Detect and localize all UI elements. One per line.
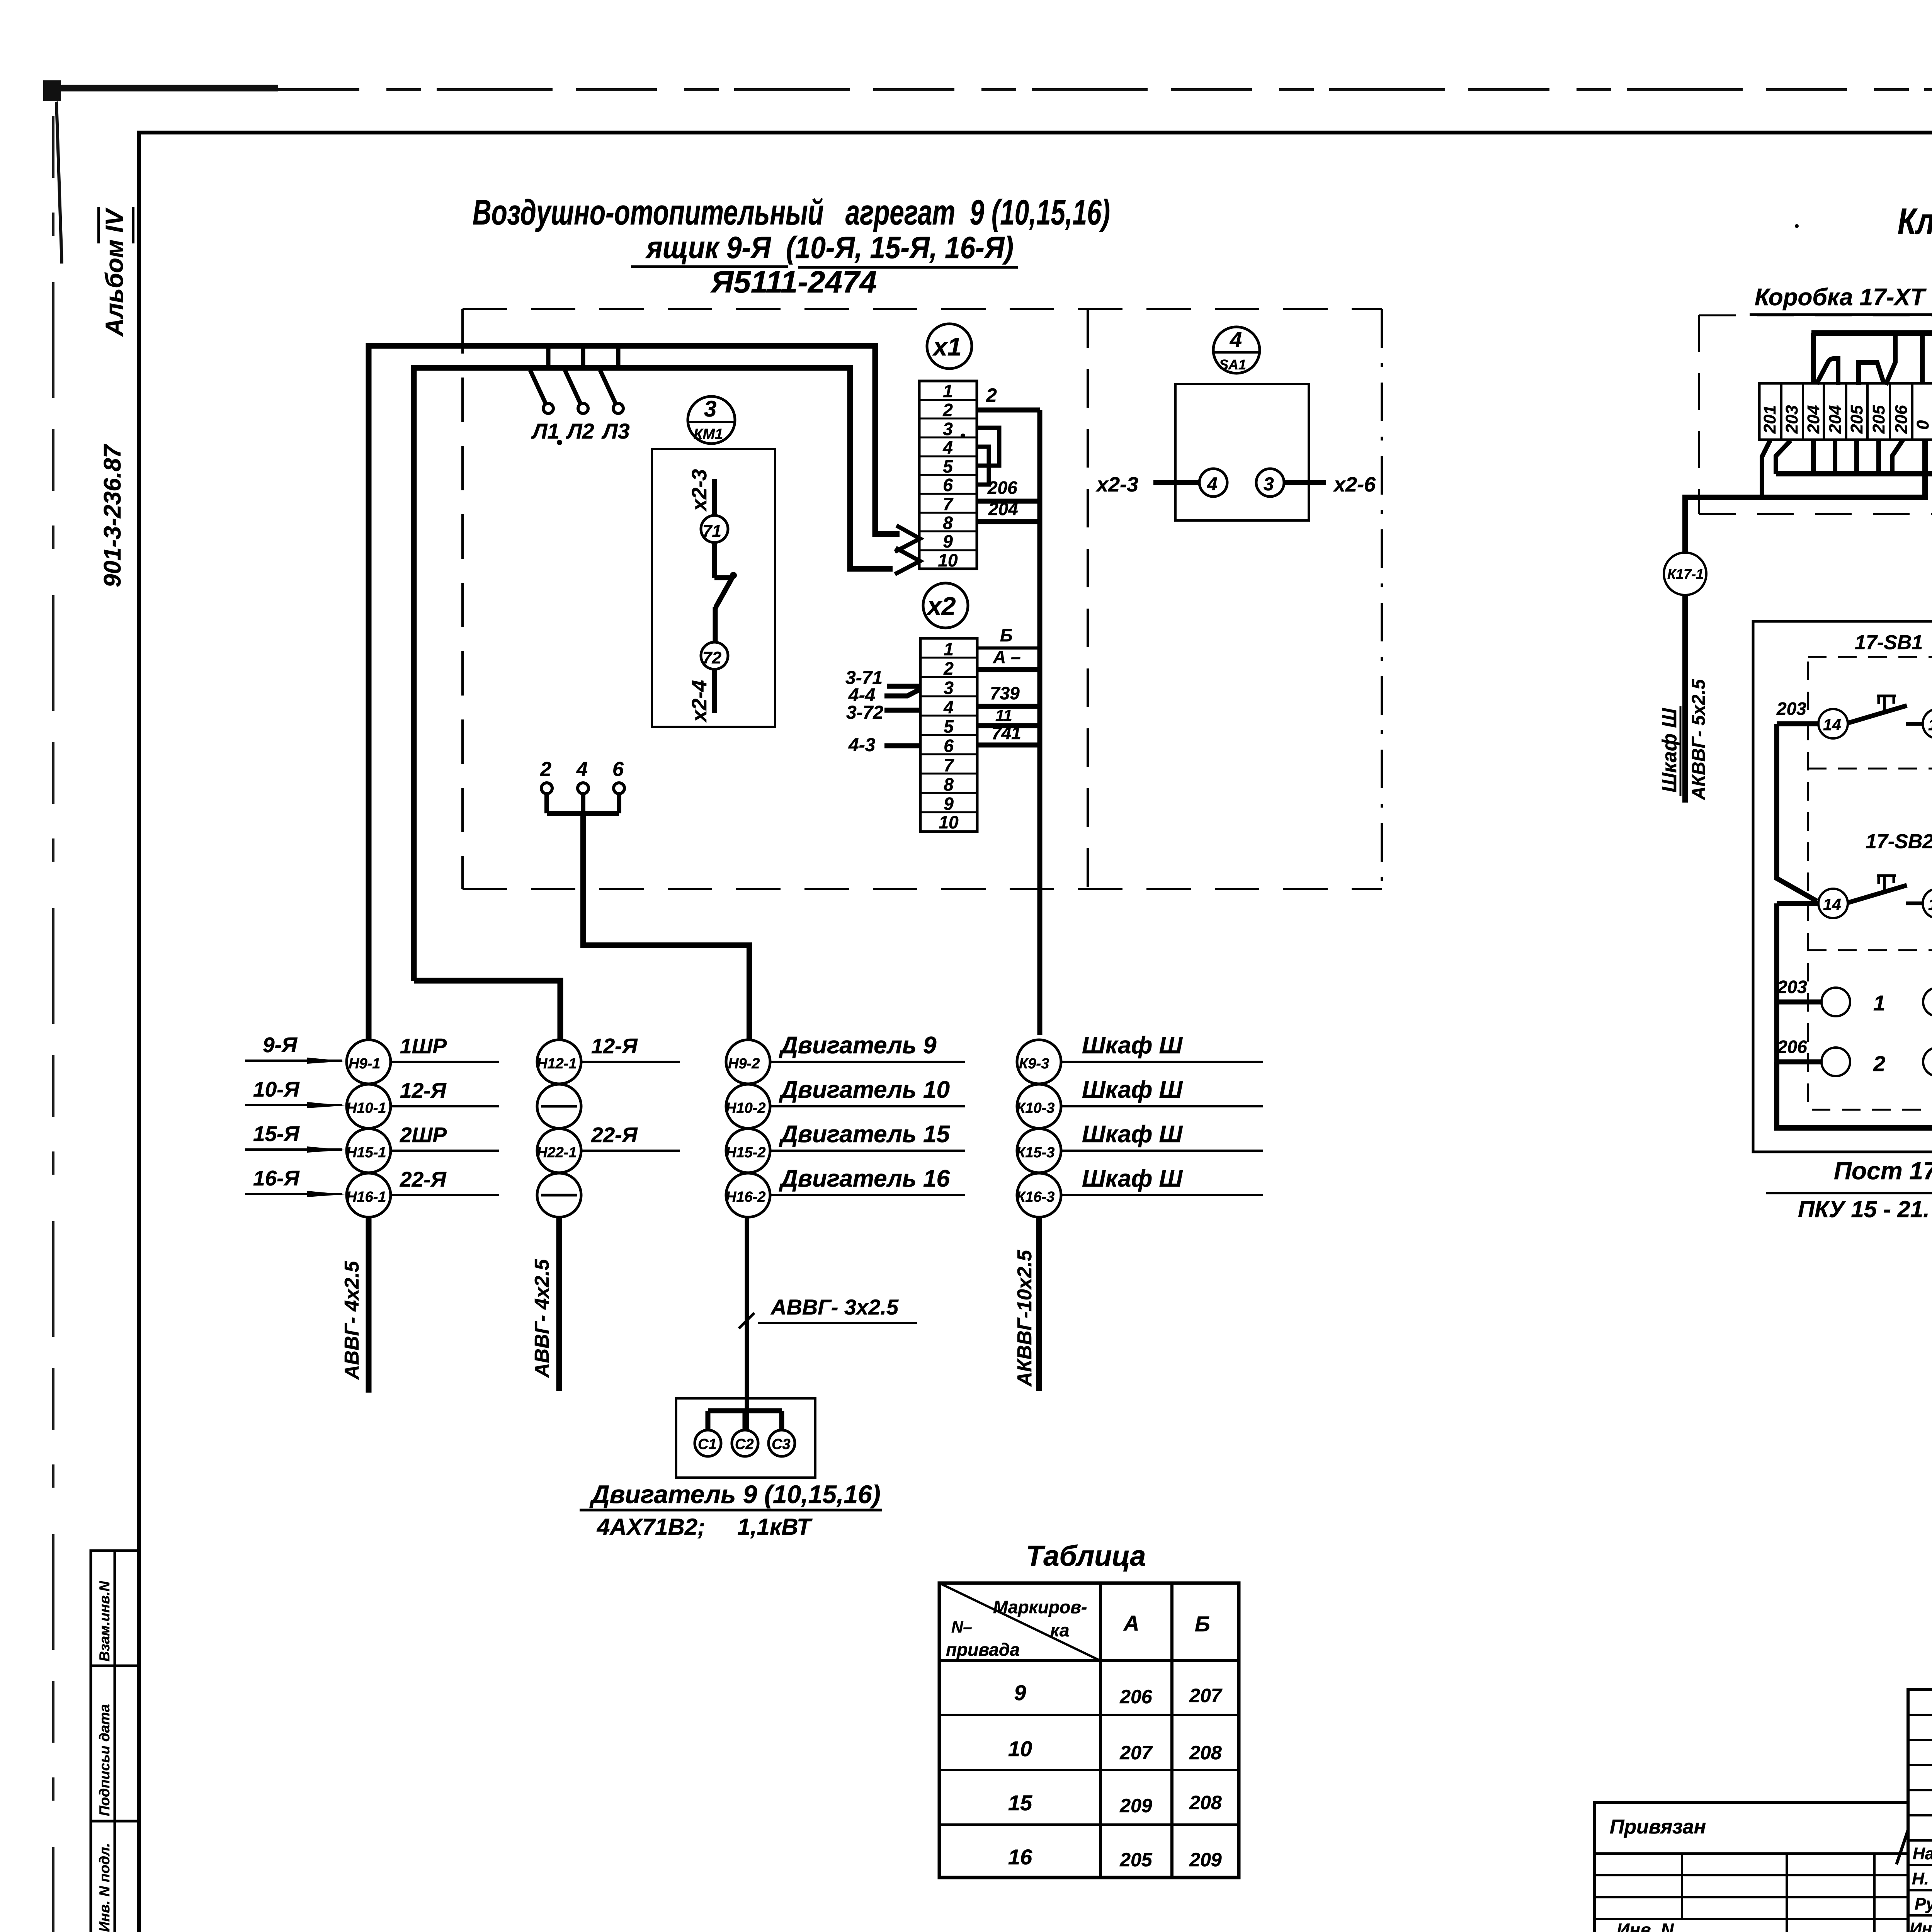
SB1 left wire 203	[1777, 721, 1818, 726]
vertical bus wire to К9-3	[1037, 410, 1043, 1035]
svg-text:Н10-2: Н10-2	[726, 1100, 766, 1116]
checkmark near signature table	[1896, 1830, 1908, 1864]
svg-text:2ШР: 2ШР	[400, 1123, 447, 1147]
svg-text:привада: привада	[946, 1639, 1020, 1660]
svg-text:7: 7	[944, 755, 954, 775]
cable circle Н22-1	[537, 1129, 581, 1173]
wire bus end down into cell3	[1811, 333, 1816, 383]
svg-text:3: 3	[943, 419, 953, 439]
cable circle Н15-2	[726, 1129, 770, 1173]
right label Шкаф Ш row3	[1061, 1121, 1263, 1151]
svg-text:201: 201	[1760, 405, 1779, 434]
terminal strip X2 body	[920, 638, 977, 832]
svg-text:9: 9	[1014, 1680, 1026, 1705]
svg-text:209: 209	[1119, 1795, 1152, 1816]
svg-text:12-Я: 12-Я	[591, 1034, 638, 1058]
svg-text:Пост 17 ПМУ: Пост 17 ПМУ	[1834, 1157, 1932, 1185]
svg-text:Двигатель 9: Двигатель 9	[779, 1032, 937, 1059]
cable circle Н16-1	[346, 1173, 391, 1217]
right label Шкаф Ш row4	[1061, 1165, 1263, 1195]
right label 22-Я	[391, 1167, 499, 1195]
svg-text:Н22-1: Н22-1	[537, 1145, 577, 1161]
svg-text:10-Я: 10-Я	[253, 1077, 300, 1101]
svg-text:9: 9	[944, 794, 954, 814]
svg-text:SA1: SA1	[1219, 357, 1246, 372]
svg-text:3: 3	[1264, 474, 1274, 495]
scan speck 3	[1795, 224, 1799, 228]
post inner dashed box	[1808, 657, 1932, 1110]
svg-text:Взам.инв.N: Взам.инв.N	[97, 1581, 112, 1662]
jumper cell5-cell6 top	[1859, 362, 1884, 385]
cable circle Н9-1	[347, 1040, 391, 1084]
cable wire below Н16-1	[366, 1217, 372, 1393]
svg-text:Двигатель 15: Двигатель 15	[779, 1121, 950, 1148]
svg-text:2: 2	[943, 658, 954, 679]
margin label Альбом IV	[99, 207, 133, 337]
svg-text:АВВГ- 4х2.5: АВВГ- 4х2.5	[341, 1260, 363, 1380]
svg-text:741: 741	[992, 723, 1021, 743]
X1 pin numbers	[938, 381, 958, 570]
svg-text:17-SB2: 17-SB2	[1866, 830, 1932, 853]
svg-text:22-Я: 22-Я	[591, 1123, 638, 1147]
bus К17-1 wire	[1685, 440, 1925, 553]
svg-text:2: 2	[1873, 1051, 1885, 1076]
svg-text:17-SB1: 17-SB1	[1855, 631, 1923, 654]
SB2 left wire	[1777, 901, 1818, 906]
left bus down to SB2	[1777, 724, 1817, 901]
cable wire below group2	[556, 1217, 562, 1391]
svg-text:Подписьи дата: Подписьи дата	[97, 1704, 112, 1816]
right label 12-Я	[391, 1078, 499, 1106]
svg-text:Шкаф Ш: Шкаф Ш	[1658, 708, 1681, 793]
svg-text:14: 14	[1823, 895, 1841, 913]
wire bus1 from frame-left group to X1 row9	[369, 346, 900, 1040]
title block signature table	[1908, 1690, 1932, 1932]
svg-text:2: 2	[942, 400, 953, 420]
svg-text:4АХ71В2; 1,1кВТ: 4АХ71В2; 1,1кВТ	[597, 1514, 813, 1540]
svg-text:КМ1: КМ1	[694, 426, 723, 442]
motor terminal box	[676, 1398, 815, 1478]
svg-text:А: А	[1123, 1611, 1139, 1635]
KM1 contact wire top	[712, 479, 717, 515]
svg-text:К16-3: К16-3	[1016, 1189, 1054, 1205]
svg-text:6: 6	[612, 758, 624, 781]
svg-text:8: 8	[944, 774, 954, 794]
svg-text:Л2: Л2	[566, 419, 594, 443]
svg-text:Н16-2: Н16-2	[726, 1189, 766, 1205]
svg-text:739: 739	[990, 683, 1020, 703]
svg-text:Двигатель 9 (10,15,16): Двигатель 9 (10,15,16)	[589, 1480, 881, 1509]
svg-text:16: 16	[1008, 1845, 1032, 1869]
left label 15-Я with arrow	[245, 1122, 345, 1153]
cable wire below Н16-2	[745, 1217, 749, 1430]
svg-text:5: 5	[944, 716, 954, 736]
svg-text:3: 3	[944, 678, 954, 698]
svg-text:1: 1	[944, 639, 954, 659]
left label 16-Я with arrow	[245, 1166, 345, 1197]
svg-text:ПКУ 15 - 21. 131- 40У3: ПКУ 15 - 21. 131- 40У3	[1798, 1196, 1932, 1222]
cable circle К16-3	[1016, 1173, 1061, 1217]
svg-text:208: 208	[1189, 1742, 1222, 1764]
svg-text:Б: Б	[1000, 625, 1013, 645]
switch SA1 designator circle	[1213, 327, 1260, 373]
label Шкаф Ш rotated	[1658, 679, 1709, 800]
KM1 contact blade	[714, 543, 734, 642]
svg-text:К9-3: К9-3	[1019, 1056, 1049, 1072]
label Двигатель 9 (10,15,16)	[580, 1480, 882, 1540]
right label Двигатель 10	[770, 1077, 965, 1106]
motor terminal С2	[732, 1430, 758, 1456]
svg-text:0: 0	[1913, 420, 1932, 430]
svg-text:К15-3: К15-3	[1016, 1145, 1054, 1161]
arrow chevron into X1 row 9	[895, 526, 920, 552]
svg-text:3-72: 3-72	[846, 702, 883, 723]
svg-text:9: 9	[943, 531, 953, 551]
cable label АВВГ-3х2.5	[739, 1295, 917, 1328]
wire bus to cell7 top	[1886, 333, 1895, 385]
svg-text:1ШР: 1ШР	[400, 1034, 447, 1058]
right label Двигатель 16	[770, 1165, 965, 1195]
cable circle К15-3	[1016, 1129, 1061, 1173]
svg-text:Рук.бр.: Рук.бр.	[1915, 1895, 1932, 1913]
table header texts	[946, 1597, 1210, 1660]
svg-text:Двигатель 16: Двигатель 16	[779, 1165, 950, 1192]
arrow chevron into X1 row 10	[895, 548, 920, 574]
svg-text:6: 6	[943, 475, 953, 495]
svg-text:13: 13	[1928, 716, 1932, 734]
left bus down to lamp 2	[1777, 1002, 1821, 1062]
svg-text:205: 205	[1119, 1849, 1153, 1871]
SB2 gap wire	[1906, 901, 1923, 905]
cable circle spare (dash)	[537, 1084, 581, 1128]
svg-text:Н12-1: Н12-1	[537, 1056, 577, 1072]
contactor KM1 box	[652, 449, 775, 727]
left label 9-Я with arrow	[245, 1033, 345, 1064]
svg-text:Воздушно-отопительный агрега: Воздушно-отопительный агрегат 9 (10,15,1…	[473, 193, 1110, 232]
svg-text:4: 4	[1207, 474, 1218, 495]
svg-text:10: 10	[938, 550, 958, 570]
svg-text:8: 8	[943, 513, 953, 533]
X2 row2 wire А	[977, 667, 1040, 672]
svg-text:Таблица: Таблица	[1026, 1540, 1146, 1572]
right label Шкаф Ш row1	[1061, 1032, 1263, 1062]
svg-text:2: 2	[540, 758, 551, 781]
right label 1ШР	[391, 1034, 499, 1062]
X2 row4 wire 739	[977, 704, 1040, 709]
wire bus to cell8 top	[1920, 333, 1925, 383]
KM1 contact wire bottom	[712, 669, 717, 713]
right label Шкаф Ш row2	[1061, 1077, 1263, 1106]
svg-text:Н. Контр.: Н. Контр.	[1912, 1869, 1932, 1888]
svg-text:15-Я: 15-Я	[253, 1122, 300, 1146]
svg-text:4: 4	[1230, 327, 1242, 352]
X1 row2 wire	[977, 408, 1040, 413]
svg-text:6: 6	[944, 736, 954, 756]
SB2 contact 13	[1923, 889, 1932, 918]
SB1 contact 14	[1818, 709, 1848, 738]
SB2 blade	[1848, 885, 1907, 903]
svg-text:207: 207	[1119, 1742, 1153, 1764]
cable circle spare 2 (dash)	[537, 1173, 581, 1217]
svg-text:3: 3	[704, 396, 716, 422]
cable circle Н10-2	[726, 1084, 770, 1128]
svg-text:209: 209	[1189, 1849, 1222, 1871]
terminal strip X2 designator	[923, 583, 968, 628]
dashed enclosure box (ящик)	[463, 309, 1382, 889]
svg-text:4: 4	[943, 697, 954, 717]
node Л1	[543, 403, 553, 413]
signature table texts	[1910, 1844, 1932, 1932]
svg-text:х2-3: х2-3	[688, 469, 711, 512]
svg-text:АВВГ- 4х2.5: АВВГ- 4х2.5	[531, 1259, 553, 1378]
svg-text:х2-4: х2-4	[688, 680, 711, 723]
svg-text:Инженер: Инженер	[1910, 1919, 1932, 1932]
label Пост 17 ПМУ	[1766, 1157, 1932, 1222]
scan sheet left edge line	[52, 116, 54, 1932]
motor feed terminals 2 4 6	[540, 758, 624, 794]
lamp row 1 right terminal	[1923, 988, 1932, 1016]
svg-text:10: 10	[1008, 1736, 1032, 1761]
svg-text:А –: А –	[993, 647, 1021, 667]
motor terminal С1	[695, 1430, 721, 1456]
X2 row6 wire 741	[977, 743, 1040, 748]
junction box dashed outline	[1699, 315, 1932, 514]
svg-text:Нач.отд.: Нач.отд.	[1913, 1844, 1932, 1863]
svg-text:К17-1: К17-1	[1667, 566, 1704, 582]
X2 left wire into row6	[884, 743, 919, 748]
svg-text:Н16-1: Н16-1	[346, 1189, 386, 1205]
svg-text:204: 204	[1826, 405, 1845, 434]
SA1 terminal 4	[1199, 469, 1227, 497]
scan speck 1	[557, 440, 562, 445]
svg-text:205: 205	[1869, 405, 1888, 434]
terminal strip X1 designator	[927, 324, 972, 369]
svg-text:Двигатель 10: Двигатель 10	[779, 1077, 950, 1103]
SB1 pushbutton actuator	[1877, 696, 1896, 713]
svg-text:1: 1	[943, 381, 953, 401]
svg-text:С2: С2	[735, 1436, 754, 1452]
svg-text:Н9-1: Н9-1	[349, 1056, 380, 1072]
svg-text:4-3: 4-3	[848, 735, 876, 755]
lower bus to К17-3	[1776, 474, 1932, 550]
left bus down to lamp 1	[1777, 903, 1821, 1002]
X1 jumper rows 4-6	[977, 447, 989, 485]
svg-text:5: 5	[943, 456, 953, 476]
svg-text:АКВВГ-10х2.5: АКВВГ-10х2.5	[1014, 1250, 1036, 1387]
KM1 terminal 71	[701, 515, 728, 543]
cable circle К9-3	[1017, 1040, 1061, 1084]
svg-text:Н9-2: Н9-2	[728, 1056, 760, 1072]
terminal stems and tie bar	[547, 794, 619, 813]
X2 left wires into row3	[887, 684, 919, 689]
right label Двигатель 15	[770, 1121, 965, 1151]
svg-text:204: 204	[1804, 405, 1823, 434]
svg-text:Альбом IV: Альбом IV	[100, 207, 128, 337]
svg-text:203: 203	[1776, 699, 1806, 719]
svg-text:АВВГ- 3х2.5: АВВГ- 3х2.5	[770, 1295, 899, 1319]
SB2 pushbutton actuator	[1877, 876, 1896, 893]
svg-text:4: 4	[576, 758, 588, 781]
label Коробка 17-ХТ	[1750, 284, 1932, 315]
right label 22-Я group2	[581, 1123, 680, 1151]
svg-text:10: 10	[939, 812, 959, 832]
SB1 contact 13	[1923, 709, 1932, 738]
cable circle К17-1	[1664, 553, 1706, 595]
svg-text:Н15-1: Н15-1	[346, 1145, 386, 1161]
svg-text:АКВВГ- 5х2.5: АКВВГ- 5х2.5	[1689, 679, 1709, 800]
X1 jumper rows 3-5	[977, 428, 999, 466]
svg-text:204: 204	[988, 499, 1018, 519]
title block left section Привязан	[1594, 1803, 1908, 1932]
svg-text:Б: Б	[1195, 1612, 1210, 1636]
svg-text:х2-3: х2-3	[1095, 473, 1138, 496]
svg-text:206: 206	[1777, 1037, 1807, 1057]
scan sheet top edge line	[50, 88, 1932, 90]
wire from terminal 4 down to Н9-2 chain	[583, 813, 749, 1040]
svg-text:Клапан 17: Клапан 17	[1898, 201, 1932, 242]
svg-text:206: 206	[1119, 1686, 1153, 1708]
svg-text:Маркиров-: Маркиров-	[993, 1597, 1087, 1617]
svg-text:4: 4	[942, 437, 953, 457]
cable circle Н16-2	[726, 1173, 770, 1217]
lamp row 2 right terminal	[1923, 1048, 1932, 1076]
cell1 stub to К17-1 bus	[1762, 440, 1770, 497]
wire bus2 branch down to Н12-1	[414, 981, 560, 1040]
SB2 contact 14	[1818, 889, 1848, 918]
svg-text:С3: С3	[772, 1436, 791, 1452]
svg-text:12-Я: 12-Я	[400, 1078, 447, 1102]
terminal strip X1 body	[919, 381, 977, 569]
left label 10-Я with arrow	[245, 1077, 345, 1108]
X1 row8 wire 204	[977, 519, 1040, 524]
svg-text:К10-3: К10-3	[1016, 1100, 1054, 1116]
svg-text:9-Я: 9-Я	[263, 1033, 298, 1057]
svg-text:ка: ка	[1050, 1620, 1069, 1640]
SB1 gap wire	[1906, 722, 1923, 726]
svg-text:Н15-2: Н15-2	[726, 1145, 766, 1161]
wire bus2 to X1 row10	[414, 368, 893, 981]
svg-text:Л1: Л1	[531, 419, 560, 443]
cable wire below К16-3	[1036, 1217, 1042, 1391]
node Л3	[613, 403, 623, 413]
svg-text:С1: С1	[698, 1436, 717, 1452]
svg-text:Я5111-2474: Я5111-2474	[710, 265, 877, 299]
svg-text:2: 2	[986, 384, 997, 406]
X2 row1 wire Б	[977, 646, 1040, 650]
right label 2ШР	[391, 1123, 499, 1151]
svg-text:206: 206	[1892, 405, 1911, 434]
svg-text:Инв. N подл.: Инв. N подл.	[97, 1843, 112, 1932]
svg-text:207: 207	[1189, 1685, 1223, 1706]
contactor KM1 designator circle	[688, 396, 735, 444]
wire x2-6 out of SA1	[1284, 480, 1326, 485]
svg-text:72: 72	[702, 648, 721, 667]
bottom bus of post	[1777, 1062, 1932, 1128]
SA1 terminal 3	[1256, 469, 1284, 497]
cable circle Н10-1	[346, 1084, 391, 1128]
svg-text:Шкаф Ш: Шкаф Ш	[1082, 1165, 1183, 1192]
cell stubs to lower bus	[1776, 440, 1791, 474]
motor terminal С3	[769, 1430, 795, 1456]
node Л2	[578, 403, 588, 413]
X1 row7 wire 206	[977, 499, 1040, 504]
X2 pin numbers	[939, 639, 959, 832]
jumper cell3-cell4 top	[1816, 359, 1838, 385]
svg-text:х2-6: х2-6	[1333, 473, 1376, 496]
main bus wire К17-2 to actuator	[1811, 333, 1932, 667]
svg-text:14: 14	[1823, 716, 1841, 734]
svg-text:ящик 9-Я (10-Я, 15-Я, 16-Я): ящик 9-Я (10-Я, 15-Я, 16-Я)	[645, 230, 1014, 265]
svg-text:х1: х1	[932, 332, 961, 361]
lamp row 1 left terminal	[1821, 988, 1850, 1016]
right label 12-Я group2	[581, 1034, 680, 1062]
svg-text:Шкаф Ш: Шкаф Ш	[1082, 1077, 1183, 1103]
X2 row5 wire 11	[977, 723, 1040, 728]
svg-text:203: 203	[1782, 405, 1801, 434]
svg-text:203: 203	[1777, 977, 1807, 997]
svg-text:16-Я: 16-Я	[253, 1166, 300, 1190]
svg-text:7: 7	[943, 494, 954, 514]
svg-text:Коробка 17-ХТ: Коробка 17-ХТ	[1755, 284, 1927, 311]
svg-text:Привязан: Привязан	[1610, 1816, 1706, 1838]
svg-text:Шкаф Ш: Шкаф Ш	[1082, 1121, 1183, 1148]
svg-text:1: 1	[1873, 991, 1885, 1015]
svg-text:208: 208	[1189, 1792, 1222, 1813]
svg-text:206: 206	[987, 478, 1017, 498]
cable circle Н15-1	[346, 1129, 391, 1173]
cable circle К10-3	[1016, 1084, 1061, 1128]
tap diagonals	[530, 370, 616, 403]
17-ХТ cell labels	[1760, 405, 1932, 434]
svg-text:901-3-236.87: 901-3-236.87	[99, 444, 126, 587]
svg-text:Шкаф Ш: Шкаф Ш	[1082, 1032, 1183, 1059]
margin box Взам.инв.N	[91, 1551, 139, 1932]
svg-text:11: 11	[995, 706, 1012, 724]
cable circle Н9-2	[726, 1040, 770, 1084]
switch SA1 box	[1175, 384, 1309, 520]
tap stubs Л1 Л2 Л3	[548, 346, 618, 368]
KM1 terminal 72	[701, 642, 728, 669]
svg-text:х2: х2	[926, 592, 956, 620]
motor tie bar	[708, 1411, 782, 1430]
svg-text:22-Я: 22-Я	[400, 1167, 447, 1191]
scan speck 2	[961, 434, 965, 438]
svg-text:N–: N–	[951, 1618, 972, 1636]
svg-text:71: 71	[702, 522, 721, 541]
lamp row 2 left terminal	[1821, 1048, 1850, 1076]
svg-text:Л3: Л3	[601, 419, 630, 443]
X2 left wire into row4	[884, 708, 919, 713]
svg-text:Н10-1: Н10-1	[346, 1100, 386, 1116]
svg-text:13: 13	[1928, 895, 1932, 913]
table frame	[939, 1583, 1239, 1878]
svg-text:205: 205	[1847, 405, 1866, 434]
cable circle Н12-1	[537, 1040, 581, 1084]
table data rows	[1008, 1680, 1223, 1871]
cable stub below К17-1	[1682, 595, 1688, 803]
svg-text:15: 15	[1008, 1791, 1032, 1815]
terminal block 17-ХТ body	[1759, 383, 1932, 440]
scan sheet corner blob	[43, 80, 63, 264]
post ПМУ box	[1753, 621, 1932, 1152]
wire x2-3 into SA1	[1153, 480, 1199, 485]
right label Двигатель 9	[770, 1032, 965, 1062]
SB1 blade	[1848, 706, 1907, 723]
svg-text:Инв. N: Инв. N	[1617, 1920, 1674, 1932]
